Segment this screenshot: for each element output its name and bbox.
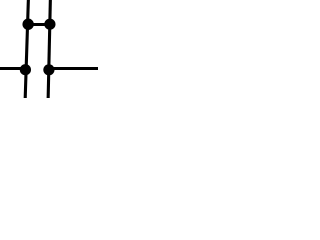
wire: bottom-left horizontal from left edge to junction [0,67,26,70]
wire: right vertical (slanted) [48,0,50,98]
junction dot bottom-right [43,64,54,75]
junction dot bottom-left [20,64,31,75]
wire: bottom-right horizontal from junction to right edge [48,67,98,70]
junction dot top-right [44,19,55,30]
wire: left vertical (slanted) [25,0,28,98]
wire: top horizontal between top junctions [27,23,51,26]
junction dot top-left [22,19,33,30]
